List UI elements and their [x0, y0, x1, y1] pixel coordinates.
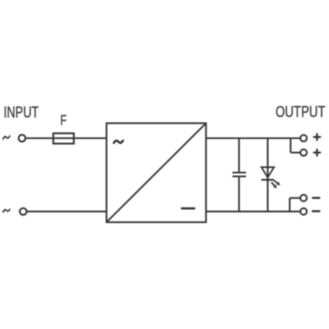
svg-text:OUTPUT: OUTPUT — [276, 104, 326, 121]
svg-text:F: F — [60, 113, 66, 129]
svg-text:INPUT: INPUT — [4, 105, 39, 122]
